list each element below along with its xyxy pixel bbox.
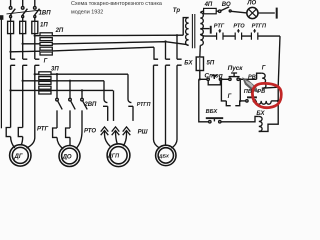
svg-text:Стоп: Стоп [204,73,222,80]
svg-text:3П: 3П [51,67,59,73]
svg-text:ДГ: ДГ [14,154,23,160]
svg-text:модели 1932: модели 1932 [71,9,103,15]
svg-text:ВО: ВО [222,2,231,8]
svg-text:РВ: РВ [257,89,265,95]
svg-text:ДБХ: ДБХ [158,154,170,160]
svg-text:1ВП: 1ВП [39,10,52,16]
svg-text:Г: Г [228,94,232,100]
svg-text:1П: 1П [40,23,48,29]
svg-text:ДО: ДО [62,154,72,160]
svg-text:2П: 2П [55,28,64,34]
svg-text:РТО: РТО [84,128,96,134]
svg-text:БХ: БХ [184,60,193,66]
svg-text:ПВ: ПВ [244,89,252,95]
svg-text:РТГП: РТГП [137,102,151,108]
svg-text:5П: 5П [207,60,215,66]
svg-text:РШ: РШ [138,129,148,135]
svg-text:Г: Г [44,59,48,65]
svg-text:ВБХ: ВБХ [206,109,219,115]
svg-text:РТГП: РТГП [252,24,267,30]
svg-text:2ВП: 2ВП [83,102,97,108]
svg-text:РВ: РВ [248,75,256,81]
svg-text:РТГ: РТГ [37,126,48,132]
svg-text:Г: Г [262,66,266,72]
svg-text:ЛО: ЛО [246,1,256,7]
svg-text:РТО: РТО [233,24,245,30]
svg-text:РТГ: РТГ [214,24,225,30]
svg-text:Тр: Тр [173,8,181,14]
svg-text:БХ: БХ [256,111,265,117]
svg-text:Схема токарно-винторезного ст: Схема токарно-винторезного станка [71,1,162,7]
svg-text:Пуск: Пуск [228,65,244,72]
svg-text:ДГП: ДГП [107,154,120,160]
svg-text:4П: 4П [204,2,213,8]
